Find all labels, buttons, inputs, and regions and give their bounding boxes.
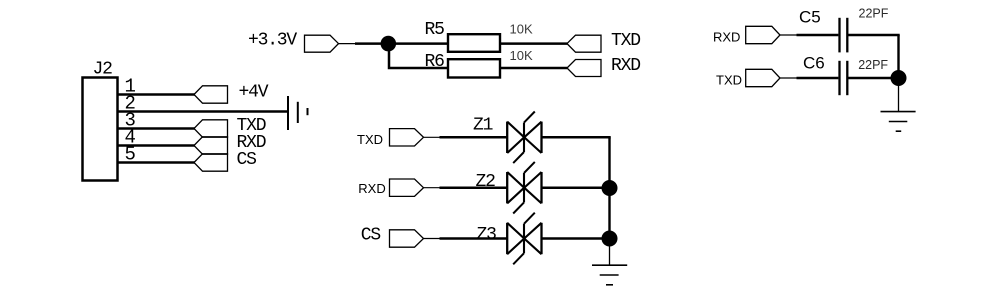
junction node bus/Z3 xyxy=(602,231,618,247)
capacitor C6 xyxy=(840,61,848,95)
port CS (J2) xyxy=(194,154,228,171)
svg-text:RXD: RXD xyxy=(611,56,640,76)
port +4V xyxy=(194,86,228,103)
svg-text:CS: CS xyxy=(237,150,257,170)
svg-text:Z3: Z3 xyxy=(477,225,497,245)
svg-text:TXD: TXD xyxy=(611,31,640,51)
port RXD (mid) xyxy=(390,179,424,196)
port TXD (mid) xyxy=(390,129,424,146)
wire bus (right) xyxy=(897,35,899,78)
junction node bus/Z2 xyxy=(602,180,618,196)
svg-text:10K: 10K xyxy=(510,48,533,63)
port TXD (top) xyxy=(567,35,601,52)
pin 1 wire xyxy=(118,93,195,95)
TVS diode Z1 xyxy=(507,112,541,164)
wire Z3 to bus xyxy=(542,237,611,240)
wire Z1 to bus xyxy=(542,136,611,139)
svg-text:R5: R5 xyxy=(425,20,445,40)
port TXD (J2) xyxy=(194,120,228,137)
pin 5 wire xyxy=(118,161,195,163)
wire TXD lead xyxy=(424,136,441,138)
junction node C6/bus xyxy=(891,70,907,86)
wire ground stem (mid) xyxy=(609,239,611,266)
wire bus (mid) xyxy=(608,137,610,238)
svg-text:RXD: RXD xyxy=(713,30,740,45)
svg-text:RXD: RXD xyxy=(358,181,385,196)
svg-text:C5: C5 xyxy=(799,7,821,26)
svg-text:Z2: Z2 xyxy=(476,172,496,192)
wire TXD to Z1 xyxy=(440,136,508,139)
wire Z2 to bus xyxy=(542,186,611,189)
resistor R5 xyxy=(448,34,500,52)
svg-text:CS: CS xyxy=(361,226,381,246)
port RXD (right) xyxy=(746,26,780,43)
wire CS to Z3 xyxy=(440,237,508,240)
svg-text:+4V: +4V xyxy=(239,83,269,103)
wire RXD lead (right) xyxy=(780,34,797,36)
TVS diode Z2 xyxy=(507,162,541,214)
ground (mid) xyxy=(592,265,627,285)
pin 2 wire to ground xyxy=(118,110,289,112)
wire C6 to bus xyxy=(847,77,899,79)
wire R5 to TXD port xyxy=(500,42,567,45)
pin 4 wire xyxy=(118,144,195,146)
wire CS lead xyxy=(424,238,441,240)
port RXD (top) xyxy=(567,60,601,77)
svg-text:TXD: TXD xyxy=(357,132,383,147)
port RXD (J2) xyxy=(194,137,228,154)
wire RXD lead xyxy=(424,187,441,189)
svg-text:10K: 10K xyxy=(510,22,533,37)
svg-text:Z1: Z1 xyxy=(473,116,493,136)
ground (pin 2, rotated) xyxy=(288,96,308,130)
capacitor C5 xyxy=(840,18,848,53)
wire +3.3V to R5 xyxy=(355,42,448,45)
connector J2 body xyxy=(83,78,118,181)
pin 3 wire xyxy=(118,127,195,129)
power port +3.3V xyxy=(305,35,339,52)
wire +3.3V lead xyxy=(339,43,357,45)
wire C5 to bus xyxy=(847,34,899,36)
TVS diode Z3 xyxy=(507,213,541,265)
wire TXD lead (right) xyxy=(780,77,797,79)
svg-text:R6: R6 xyxy=(425,52,445,72)
wire ground stem (right) xyxy=(898,78,900,111)
svg-text:22PF: 22PF xyxy=(858,58,888,72)
wire R6 to RXD port xyxy=(500,67,567,70)
wire TXD to C6 xyxy=(797,77,839,79)
svg-text:+3.3V: +3.3V xyxy=(248,31,297,51)
svg-text:C6: C6 xyxy=(803,54,825,73)
wire junction down to R6 row xyxy=(389,44,448,68)
junction node +3.3V xyxy=(381,36,397,52)
ground (right) xyxy=(881,112,916,132)
wire RXD to C5 xyxy=(797,34,839,36)
port CS (mid) xyxy=(390,230,424,247)
port TXD (right) xyxy=(746,69,780,86)
resistor R6 xyxy=(448,59,500,77)
wire RXD to Z2 xyxy=(440,186,508,189)
svg-text:22PF: 22PF xyxy=(859,6,889,20)
svg-text:TXD: TXD xyxy=(716,72,742,87)
